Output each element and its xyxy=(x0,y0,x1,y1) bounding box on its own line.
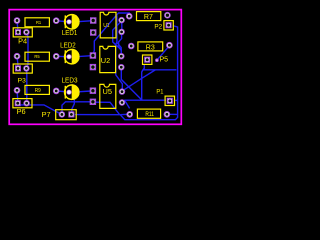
board outline border xyxy=(9,10,181,125)
wire big loop: P5 region horizontal and left vertical xyxy=(143,65,176,70)
wire R5 left pad to P3 pin1 xyxy=(16,57,19,68)
wire big loop left vertical down to bottom junction xyxy=(142,70,143,100)
svg-text:LED3: LED3 xyxy=(62,76,78,85)
wire U2 pin3 down diagonal to loop bottom xyxy=(121,68,141,100)
pad R5 right xyxy=(53,53,60,60)
svg-text:R7: R7 xyxy=(144,12,153,21)
wire U1 pin4 diag down inside U1 to U2 pin4 xyxy=(113,21,122,55)
pad R11 right xyxy=(164,111,171,118)
opto U2 pin 3 pad xyxy=(118,64,124,70)
via near P5 xyxy=(155,58,159,62)
opto U5 pin 1 pad xyxy=(90,88,96,94)
svg-text:R11: R11 xyxy=(145,112,154,118)
opto U2 pin 1 pad xyxy=(90,52,96,58)
opto U1 pin 3 pad xyxy=(118,29,124,35)
svg-text:P3: P3 xyxy=(18,77,27,84)
opto U2 pin 4 pad xyxy=(118,53,124,59)
wire U5 pin2 right under IC down to bottom junction xyxy=(96,102,120,114)
resistor R7 xyxy=(137,12,161,21)
wire U5 pin2 left and down to P7 pin1 xyxy=(62,102,92,114)
wire R9 right pad to LED3 pad xyxy=(57,90,67,93)
opto U1 outline xyxy=(100,12,116,38)
svg-text:U2: U2 xyxy=(101,56,111,65)
wire P7 pin2 right, down and around to P2 pad xyxy=(75,26,178,120)
wire LED3 pad2 to U5 pin1 xyxy=(76,90,91,93)
wire R1 left pad to P4 pin1 xyxy=(16,22,19,32)
wire U5 pin4 to big loop horizontal xyxy=(123,70,156,91)
opto U2 pin 2 pad xyxy=(90,64,96,70)
opto U5 pin 2 pad xyxy=(90,99,96,105)
wire P1 pad to border trace xyxy=(174,99,178,101)
svg-text:P4: P4 xyxy=(18,36,27,45)
connector P6 xyxy=(13,99,32,108)
svg-text:LED2: LED2 xyxy=(60,41,76,50)
pad R9 left xyxy=(14,87,21,94)
svg-text:U5: U5 xyxy=(103,87,113,96)
wire LED1 pad2 to U1 pin1 xyxy=(76,21,93,22)
svg-text:P2: P2 xyxy=(154,24,162,31)
pad R3 right xyxy=(166,42,173,49)
opto U1 pin 1 pad xyxy=(90,17,96,23)
connector P4 xyxy=(13,28,32,37)
resistor R5 xyxy=(25,52,49,61)
wire LED3 pad2 down to P7 pin2 xyxy=(72,93,75,114)
connector P5 xyxy=(143,54,169,64)
wire P3 pin2 down to P6 pin2 xyxy=(26,70,28,103)
svg-text:R1: R1 xyxy=(36,20,41,26)
opto U1 pin 4 pad xyxy=(118,17,124,23)
wire R5 right pad to LED2 pad xyxy=(57,55,69,57)
wire R11 right pad to border trace xyxy=(170,113,178,115)
pad R1 left xyxy=(14,17,21,24)
pad R3 left xyxy=(128,43,135,50)
connector P2 xyxy=(154,21,173,31)
wire branch U1 right to U2 pin4 xyxy=(117,15,121,55)
LED3 xyxy=(62,76,80,101)
opto U5 pin 3 pad xyxy=(119,99,125,105)
wire R3 right pad diagonal to via xyxy=(157,46,169,60)
LED2 xyxy=(60,41,79,65)
wire U5 pin3 to P1 pad xyxy=(123,100,166,102)
pad R11 left xyxy=(126,111,133,118)
wire junction diagonal to R11 left pad xyxy=(125,101,130,109)
pad R7 left xyxy=(126,13,133,20)
wire LED2 pad2 to U2 pin1 xyxy=(76,56,92,57)
svg-text:R3: R3 xyxy=(146,42,155,51)
svg-text:P7: P7 xyxy=(42,110,51,119)
wire R9 left pad to P6 pin1 xyxy=(16,91,19,103)
svg-text:R9: R9 xyxy=(35,88,41,94)
svg-text:P1: P1 xyxy=(156,89,163,96)
wire branch down behind U2 to U5 pin4 xyxy=(116,42,123,90)
resistor R9 xyxy=(25,85,49,94)
connector P3 xyxy=(13,64,32,73)
resistor R11 xyxy=(137,109,160,118)
resistor R3 xyxy=(138,42,163,52)
svg-text:P5: P5 xyxy=(160,54,169,63)
opto U1 pin 2 pad xyxy=(90,29,96,35)
wire P4 pin2 down to P3 pin2 xyxy=(27,33,28,68)
svg-text:P6: P6 xyxy=(17,107,26,116)
connector P1 xyxy=(156,89,174,106)
LED1 xyxy=(62,14,80,37)
wire P6 pin2 to P7 pin1 xyxy=(19,105,61,114)
wire U2 pin1 up over U1 to R7 left pad xyxy=(93,13,129,55)
svg-text:U1: U1 xyxy=(103,23,109,29)
pad R5 left xyxy=(14,53,21,60)
opto U5 outline xyxy=(100,84,116,108)
wire junction to R11 left pad xyxy=(120,113,127,115)
svg-text:R5: R5 xyxy=(34,54,39,60)
pad R1 right xyxy=(53,17,60,24)
resistor R1 xyxy=(25,18,49,27)
pad R9 right xyxy=(53,88,60,95)
opto U2 outline xyxy=(100,46,116,72)
opto U5 pin 4 pad xyxy=(119,88,125,94)
pad R7 right xyxy=(164,12,171,19)
svg-text:LED1: LED1 xyxy=(62,28,78,37)
connector P7 xyxy=(56,110,76,120)
wire U1 pin3 down to U2 pin4 xyxy=(119,34,122,56)
wire U1 pin4 to U1 pin3 xyxy=(121,21,123,32)
wire R1 right pad to LED1 pad xyxy=(57,20,69,23)
